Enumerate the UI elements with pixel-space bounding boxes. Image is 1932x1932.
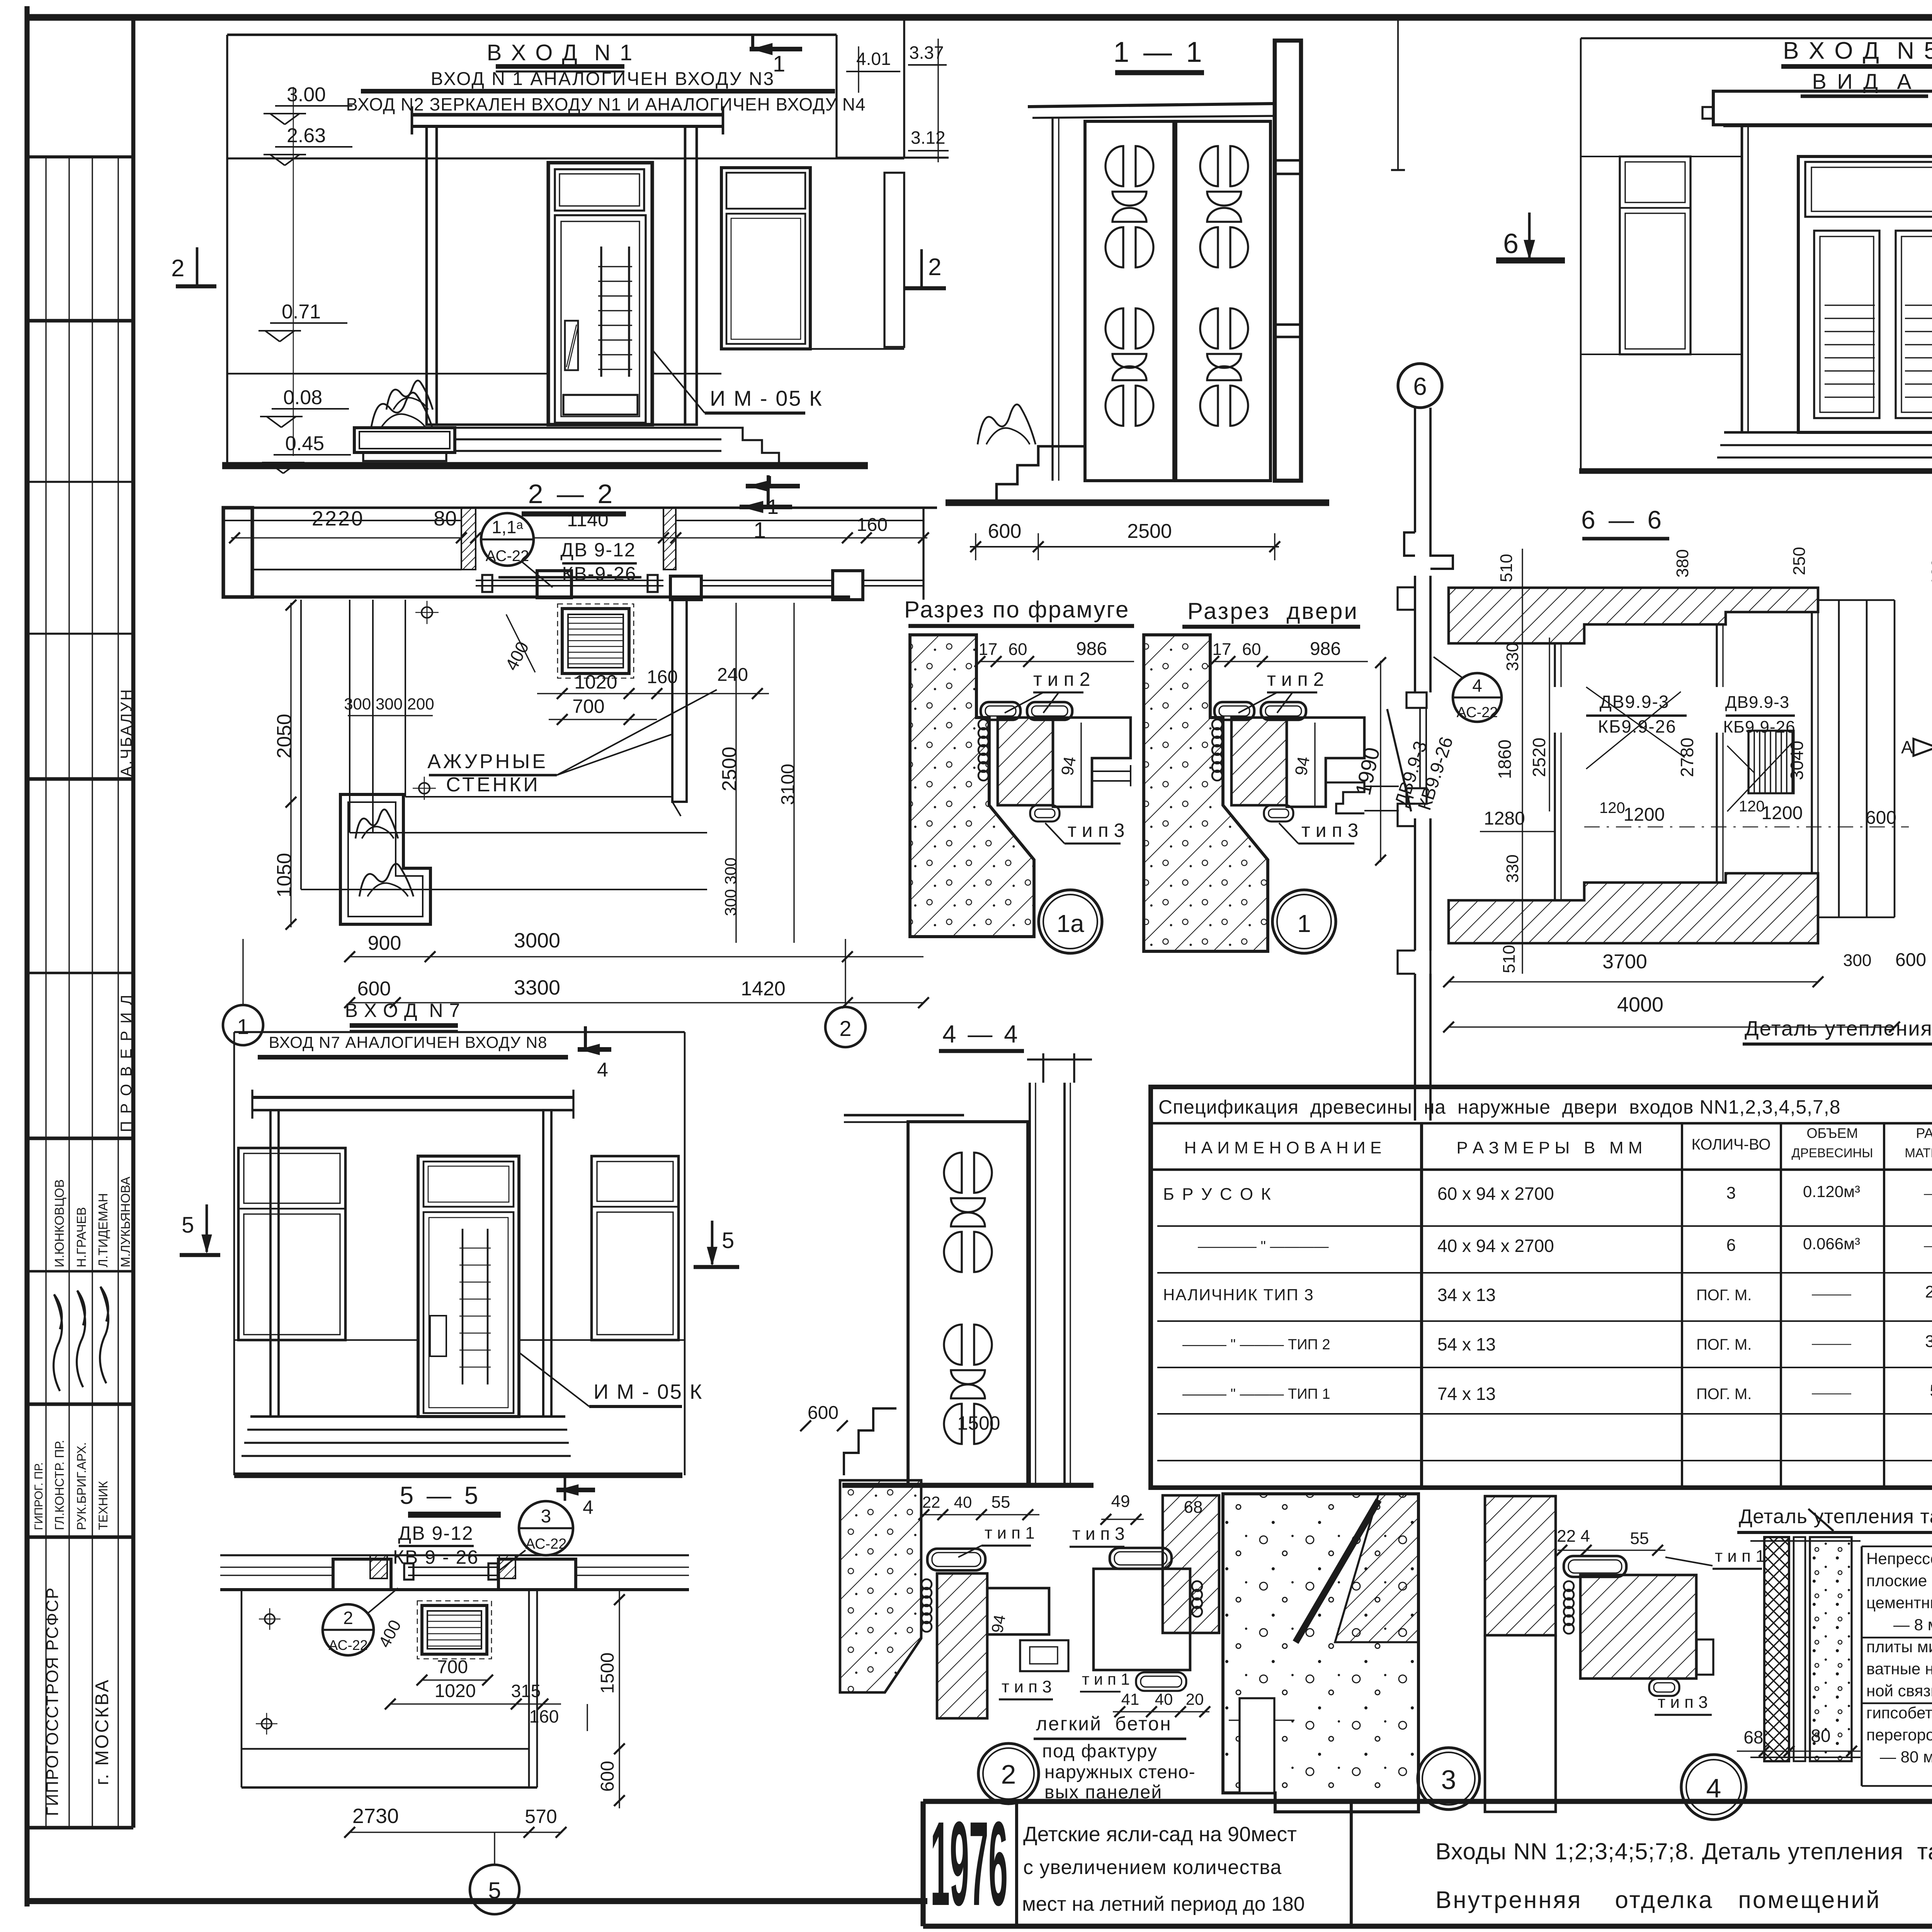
detail 3 hatched block (1485, 1496, 1556, 1635)
sheet border top (27, 14, 1932, 20)
ground line N5 (1579, 468, 1932, 474)
top wall hatched 6-6 (1449, 588, 1818, 643)
svg-text:60: 60 (1009, 640, 1027, 659)
grid bubble 5 (470, 1865, 519, 1914)
svg-text:41: 41 (1121, 1690, 1139, 1708)
svg-text:120: 120 (1739, 798, 1765, 815)
svg-text:гипсобетонная: гипсобетонная (1866, 1704, 1932, 1722)
svg-text:ВХОД N7 АНАЛОГИЧЕН ВХОДУ N8: ВХОД N7 АНАЛОГИЧЕН ВХОДУ N8 (269, 1033, 548, 1051)
room partition b (1716, 624, 1718, 687)
4-4 top tick (1027, 1058, 1092, 1060)
5-5 flank window lines (220, 1566, 333, 1568)
room partition c right (1811, 612, 1813, 873)
svg-text:330: 330 (1503, 643, 1522, 671)
wall joint lines (227, 373, 548, 375)
svg-text:ГИПРОГОССТРОЯ РСФСР: ГИПРОГОССТРОЯ РСФСР (43, 1587, 62, 1816)
far right window sliver (884, 173, 904, 347)
svg-text:2.63: 2.63 (287, 124, 326, 147)
ground line 1-1 (946, 499, 1329, 506)
window left N7 (238, 1148, 345, 1340)
svg-text:600: 600 (1895, 950, 1926, 970)
5-5 porch outline (241, 1590, 243, 1787)
detail 4 concrete strip (1810, 1537, 1852, 1761)
svg-text:20: 20 (1186, 1690, 1204, 1708)
svg-text:60 х 94 х 2700: 60 х 94 х 2700 (1437, 1184, 1554, 1204)
svg-text:АС-22: АС-22 (328, 1637, 367, 1653)
ventilation grille in plan (558, 604, 634, 678)
svg-text:40: 40 (1155, 1690, 1173, 1708)
svg-text:И М - 05 К: И М - 05 К (594, 1380, 703, 1403)
svg-text:3: 3 (1726, 1184, 1736, 1202)
svg-text:плоские асбесто—: плоские асбесто— (1866, 1571, 1932, 1590)
grid bubble 1 (223, 1005, 263, 1045)
detail bubble 4 AS-22 (1453, 673, 1502, 722)
svg-text:2780: 2780 (1677, 738, 1697, 777)
ajour wall horizontals (405, 796, 672, 798)
svg-text:т и п 3: т и п 3 (1068, 820, 1124, 841)
svg-text:34 х 13: 34 х 13 (1437, 1285, 1496, 1305)
left porch post (427, 126, 437, 425)
pier far right (833, 571, 863, 600)
svg-text:В Х О Д N 7: В Х О Д N 7 (345, 1000, 461, 1021)
svg-text:———: ——— (1924, 1238, 1932, 1253)
svg-text:1500: 1500 (597, 1653, 618, 1694)
detail 2 casing loop (927, 1549, 985, 1570)
detail 3 casing loop (1564, 1556, 1626, 1577)
svg-text:160: 160 (529, 1706, 559, 1726)
svg-text:Внутренняя отделка помеще: Внутренняя отделка помещений (1435, 1887, 1881, 1913)
casing loop top b (1261, 702, 1306, 720)
wall jog (1404, 532, 1453, 569)
svg-text:мест на летний период до 180: мест на летний период до 180 (1022, 1893, 1305, 1915)
detail bubble 1,1a AS-22 (481, 513, 534, 566)
detail 4 insulation strip (1794, 1537, 1805, 1761)
svg-text:60: 60 (1242, 640, 1261, 659)
wall band lower lines (252, 569, 461, 571)
svg-text:цементные листы—: цементные листы— (1866, 1594, 1932, 1612)
svg-text:80: 80 (1811, 1726, 1830, 1746)
svg-text:2220: 2220 (312, 507, 364, 530)
svg-text:986: 986 (1076, 639, 1107, 659)
svg-text:под фактуру: под фактуру (1042, 1741, 1158, 1762)
svg-text:4: 4 (1706, 1773, 1721, 1803)
casing loop bottom (1264, 805, 1293, 821)
svg-text:3: 3 (1441, 1765, 1456, 1795)
detail 3 tip3 casing (1649, 1679, 1679, 1696)
svg-text:4: 4 (1472, 675, 1482, 696)
svg-text:3300: 3300 (514, 976, 560, 999)
svg-text:Р А З М Е Р Ы В М М: Р А З М Е Р Ы В М М (1456, 1138, 1642, 1157)
svg-text:ВХОД N 1 АНАЛОГИЧЕН ВХОДУ N3: ВХОД N 1 АНАЛОГИЧЕН ВХОДУ N3 (431, 69, 775, 89)
detail bubble 2 bottom (978, 1743, 1039, 1804)
5-5 opening frame lines (408, 1566, 497, 1568)
stamp column right edge (131, 17, 136, 1828)
pier right (670, 576, 701, 600)
framuga pointer (1092, 770, 1131, 772)
svg-text:ДВ9.9-3: ДВ9.9-3 (1725, 693, 1789, 712)
svg-text:68: 68 (1743, 1727, 1763, 1747)
shaft with vertical hatch (1748, 731, 1794, 793)
svg-text:1420: 1420 (741, 978, 786, 1000)
door leaves N5 (1814, 231, 1879, 418)
svg-text:Спецификация древесины на н: Спецификация древесины на наружные двери… (1158, 1096, 1841, 1118)
svg-text:5: 5 (722, 1228, 734, 1253)
svg-text:5: 5 (488, 1878, 501, 1903)
5-5 pier right (498, 1559, 576, 1590)
svg-text:55: 55 (992, 1493, 1010, 1512)
svg-text:ВХОД N2 ЗЕРКАЛЕН ВХОДУ N1 И АН: ВХОД N2 ЗЕРКАЛЕН ВХОДУ N1 И АНАЛОГИЧЕН В… (346, 94, 866, 114)
svg-text:П Р О В Е Р И Л: П Р О В Е Р И Л (118, 993, 135, 1132)
detail bubble 2 AS-22 (323, 1604, 374, 1655)
stamp column top box (27, 155, 133, 158)
svg-text:32.0: 32.0 (1925, 1332, 1932, 1351)
survey circles 5-5 (265, 1614, 275, 1624)
ground line (222, 462, 868, 469)
room partition a (1554, 643, 1556, 687)
svg-text:Н А И М Е Н О В А Н И Е: Н А И М Е Н О В А Н И Е (1184, 1138, 1382, 1157)
detail 3 spring (1564, 1581, 1574, 1591)
section mark 4 top right 5-5 (564, 1475, 566, 1501)
svg-text:плиты минерало —: плиты минерало — (1866, 1638, 1932, 1656)
detail bubble 4 bottom (1681, 1755, 1746, 1820)
stamp column verticals (45, 157, 46, 1828)
svg-text:Деталь утепления тамбура: Деталь утепления тамбура (1745, 1017, 1932, 1040)
frame outer block (1053, 718, 1131, 807)
concrete wall hatch of framuga section (910, 635, 1034, 937)
casing loop top a (981, 702, 1020, 720)
svg-text:— 80 мм: — 80 мм (1866, 1748, 1932, 1766)
svg-text:94: 94 (1058, 755, 1080, 777)
detail 2 spring (922, 1579, 932, 1589)
svg-text:94: 94 (1291, 755, 1313, 777)
stair seen through door glazing (600, 247, 602, 377)
svg-text:600: 600 (808, 1403, 838, 1423)
svg-text:ной связке δ=150-60мм: ной связке δ=150-60мм (1866, 1682, 1932, 1700)
frame outer block (1287, 718, 1364, 807)
sheet border bottom left part (27, 1898, 927, 1904)
stairs in door N7 (462, 1229, 464, 1384)
svg-text:4: 4 (583, 1497, 594, 1518)
tambour left wall in plan (1414, 576, 1416, 692)
svg-text:1 — 1: 1 — 1 (1113, 36, 1205, 68)
section mark 4 (584, 1026, 587, 1052)
svg-text:4: 4 (597, 1059, 608, 1081)
svg-text:6: 6 (1726, 1236, 1736, 1255)
svg-text:Л.ТИДЕМАН: Л.ТИДЕМАН (96, 1193, 110, 1267)
svg-text:т и п 3: т и п 3 (1301, 820, 1358, 841)
svg-text:23.0: 23.0 (1925, 1282, 1932, 1301)
porch floor line (437, 423, 685, 426)
right porch post (685, 126, 697, 425)
4-4 ornamental door leaf (908, 1122, 1028, 1485)
svg-text:В Х О Д N 5: В Х О Д N 5 (1783, 37, 1932, 64)
marker A triangle (1913, 739, 1932, 756)
svg-text:1а: 1а (1056, 910, 1084, 937)
svg-text:МАТЕРИАЛА: МАТЕРИАЛА (1905, 1146, 1932, 1160)
entrance N5 area frame (1581, 37, 1932, 39)
svg-text:1280: 1280 (1484, 808, 1525, 829)
svg-text:с увеличением количества: с увеличением количества (1023, 1856, 1282, 1879)
svg-text:1020: 1020 (574, 671, 617, 693)
svg-text:т и п 1: т и п 1 (1082, 1670, 1130, 1688)
pier middle (537, 571, 571, 598)
section mark 1 right of title (769, 476, 771, 488)
svg-text:2: 2 (171, 255, 184, 282)
svg-text:94: 94 (988, 1613, 1009, 1634)
svg-text:570: 570 (525, 1806, 557, 1827)
svg-text:ГИПРОГ. ПР.: ГИПРОГ. ПР. (32, 1462, 45, 1530)
svg-text:ОБЪЕМ: ОБЪЕМ (1807, 1125, 1858, 1141)
svg-text:АЖУРНЫЕ: АЖУРНЫЕ (427, 750, 548, 773)
svg-text:А.ЧБАЛУН: А.ЧБАЛУН (118, 688, 135, 777)
svg-text:2: 2 (839, 1016, 851, 1041)
svg-text:5 — 5: 5 — 5 (400, 1481, 481, 1509)
section line stub above (1397, 19, 1399, 170)
svg-text:5.0: 5.0 (1930, 1381, 1932, 1400)
door leaf left with ornament (1085, 121, 1174, 481)
svg-text:3.00: 3.00 (287, 83, 326, 106)
svg-text:РУК.БРИГ.АРХ.: РУК.БРИГ.АРХ. (75, 1442, 88, 1530)
plant in planter (371, 393, 433, 429)
svg-text:0.08: 0.08 (283, 386, 322, 409)
posts N7 (270, 1110, 279, 1417)
grid bubble 2 (825, 1007, 866, 1047)
survey point circles (422, 607, 432, 618)
spec table row lines (1157, 1225, 1932, 1227)
ajour wall pier right (672, 600, 687, 802)
svg-text:4000: 4000 (1617, 993, 1663, 1016)
detail 2 concrete mass (1223, 1494, 1418, 1812)
detail 3 frame blocks (1580, 1575, 1696, 1679)
svg-text:2500: 2500 (718, 747, 741, 791)
svg-text:М.ЛУКЬЯНОВА: М.ЛУКЬЯНОВА (118, 1177, 133, 1267)
svg-text:510: 510 (1497, 554, 1516, 582)
detail 2 concrete block left (840, 1480, 921, 1692)
svg-text:160: 160 (647, 667, 678, 687)
stamp column dividers (27, 319, 133, 322)
detail bubble 6 (1398, 364, 1442, 408)
svg-text:3.12: 3.12 (911, 128, 946, 148)
svg-text:1,1ᵃ: 1,1ᵃ (492, 517, 523, 537)
svg-text:1: 1 (1297, 910, 1311, 937)
svg-text:80: 80 (434, 507, 457, 530)
svg-text:ПОГ. М.: ПОГ. М. (1696, 1336, 1752, 1353)
entrance steps left (976, 446, 1085, 503)
svg-text:Входы NN 1;2;3;4;5;7;8. Деталь: Входы NN 1;2;3;4;5;7;8. Деталь утепления… (1435, 1838, 1932, 1864)
entrance N7 area frame (234, 1031, 685, 1033)
wall lines N7 (234, 1339, 418, 1341)
svg-text:3: 3 (541, 1506, 551, 1527)
casing loop top b (1027, 702, 1072, 720)
frame wood block hatched (1231, 718, 1287, 805)
canopy N7 (252, 1096, 573, 1099)
casing loop bottom (1030, 805, 1060, 821)
svg-text:0.71: 0.71 (282, 301, 321, 323)
svg-text:17: 17 (1213, 640, 1231, 659)
svg-text:———: ——— (1812, 1336, 1851, 1351)
svg-text:ПОГ. М.: ПОГ. М. (1696, 1386, 1752, 1403)
svg-text:ТЕХНИК: ТЕХНИК (96, 1481, 110, 1530)
svg-text:НАЛИЧНИК ТИП 3: НАЛИЧНИК ТИП 3 (1163, 1286, 1314, 1304)
section mark 1 top (751, 34, 754, 51)
svg-text:1200: 1200 (1762, 803, 1803, 823)
entrance N1 drawing area frame (227, 34, 837, 36)
svg-text:54 х 13: 54 х 13 (1437, 1334, 1496, 1354)
svg-text:СТЕНКИ: СТЕНКИ (446, 774, 540, 796)
door bottom panel (563, 395, 638, 415)
frame foam spring (978, 719, 988, 730)
svg-text:1200: 1200 (1624, 804, 1665, 825)
svg-text:И.ЮНКОВЦОВ: И.ЮНКОВЦОВ (52, 1179, 66, 1267)
svg-text:Н.ГРАЧЕВ: Н.ГРАЧЕВ (74, 1207, 88, 1267)
door handle N7 (430, 1316, 446, 1356)
thin porch post (1051, 118, 1053, 481)
door leaf right with ornament (1176, 121, 1270, 481)
canopy of section 1-1 (1028, 104, 1275, 107)
svg-text:6: 6 (1413, 372, 1427, 400)
4-4 steps (844, 1408, 896, 1475)
window right N7 (592, 1156, 679, 1340)
spec table column lines (1420, 1123, 1423, 1488)
svg-text:наружных стено-: наружных стено- (1044, 1762, 1196, 1782)
wall stub below bubble 6 (1414, 408, 1416, 532)
svg-text:380: 380 (1673, 549, 1692, 577)
svg-text:———: ——— (1812, 1287, 1851, 1301)
svg-text:300 300 200: 300 300 200 (344, 695, 434, 713)
concrete wall hatch of door section (1144, 635, 1268, 951)
svg-text:ДВ 9-12: ДВ 9-12 (398, 1522, 473, 1544)
detail bubble 3 (1418, 1748, 1480, 1810)
svg-text:3040: 3040 (1787, 741, 1807, 780)
svg-text:4.01: 4.01 (856, 49, 891, 69)
svg-text:1860: 1860 (1495, 740, 1515, 779)
frame notch top right (835, 35, 837, 158)
section mark 1 bottom (767, 475, 770, 509)
svg-text:40: 40 (954, 1493, 972, 1511)
stairs behind glazing N5 (1825, 304, 1875, 306)
plan 2-2 wall band top line (223, 507, 937, 509)
door N7 (418, 1156, 519, 1417)
detail bubble 3 AS-22 (519, 1501, 573, 1555)
window in plan right (701, 580, 833, 581)
door frame blocks in tambour wall (1406, 692, 1427, 708)
svg-text:6: 6 (1503, 228, 1519, 259)
svg-text:т и п 2: т и п 2 (1033, 668, 1090, 690)
detail 3 lower outline (1485, 1635, 1556, 1812)
svg-text:Деталь утепления тамбура: Деталь утепления тамбура (1739, 1505, 1932, 1528)
svg-text:3000: 3000 (514, 929, 560, 952)
svg-text:600: 600 (597, 1761, 618, 1792)
svg-text:1: 1 (237, 1014, 249, 1039)
svg-text:160: 160 (857, 515, 888, 535)
svg-text:2050: 2050 (273, 714, 296, 759)
svg-text:315: 315 (511, 1681, 541, 1701)
detail 2 hatched sheet strip (1163, 1495, 1219, 1633)
detail bubble 1а (1039, 890, 1102, 953)
svg-text:Разрез двери: Разрез двери (1187, 598, 1359, 624)
svg-text:РАСХОД: РАСХОД (1916, 1125, 1932, 1141)
frame foam spring (1212, 719, 1222, 730)
svg-text:700: 700 (437, 1657, 468, 1677)
detail 2 right profile assembly (1094, 1569, 1190, 1670)
svg-text:перегородка —: перегородка — (1866, 1726, 1932, 1744)
door handle glazing hatch (565, 321, 578, 370)
svg-text:1140: 1140 (567, 509, 609, 531)
svg-text:5: 5 (182, 1213, 194, 1238)
svg-text:330: 330 (1503, 854, 1522, 883)
svg-text:т и п 3: т и п 3 (1072, 1524, 1125, 1544)
svg-text:49: 49 (1111, 1492, 1130, 1511)
svg-text:74 х 13: 74 х 13 (1437, 1384, 1496, 1404)
svg-text:0.45: 0.45 (285, 432, 324, 455)
stamp signatures (54, 1294, 62, 1391)
tambour side walls (1741, 125, 1743, 432)
svg-text:т и п 1: т и п 1 (985, 1524, 1035, 1543)
ground N7 (234, 1473, 682, 1478)
svg-text:ГЛ.КОНСТР. ПР.: ГЛ.КОНСТР. ПР. (53, 1440, 66, 1530)
svg-text:———— " ————: ———— " ———— (1198, 1238, 1329, 1255)
axis dash line through plan (1584, 827, 1909, 828)
svg-text:17: 17 (979, 640, 998, 659)
svg-text:0.066м³: 0.066м³ (1803, 1235, 1860, 1253)
svg-text:2520: 2520 (1529, 738, 1549, 777)
svg-text:т и п 3: т и п 3 (1002, 1677, 1052, 1696)
svg-text:ватные на битум—: ватные на битум— (1866, 1660, 1932, 1678)
svg-text:———: ——— (1812, 1386, 1851, 1400)
svg-text:легкий бетон: легкий бетон (1036, 1713, 1172, 1735)
flank wall lines N5 (1581, 156, 1620, 157)
svg-text:900: 900 (368, 932, 401, 954)
svg-text:г. МОСКВА: г. МОСКВА (92, 1678, 112, 1785)
svg-text:КВ-9-26: КВ-9-26 (562, 563, 636, 585)
door unit N5 (1798, 156, 1932, 432)
title block frame (923, 1799, 1932, 1804)
door unit (548, 163, 652, 425)
svg-text:600: 600 (1866, 808, 1896, 828)
svg-text:АС-22: АС-22 (1457, 704, 1498, 721)
bottom wall hatched 6-6 (1449, 873, 1818, 943)
svg-text:А: А (1901, 737, 1913, 757)
svg-text:240: 240 (717, 665, 748, 685)
svg-text:600: 600 (357, 978, 391, 1000)
svg-text:700: 700 (572, 696, 604, 717)
porch slab N7 (250, 1415, 565, 1418)
svg-text:40 х 94 х 2700: 40 х 94 х 2700 (1437, 1236, 1554, 1256)
svg-text:т и п 3: т и п 3 (1658, 1693, 1708, 1712)
svg-text:55: 55 (1630, 1529, 1649, 1548)
svg-text:И М - 05 К: И М - 05 К (710, 386, 823, 410)
svg-text:3700: 3700 (1602, 951, 1647, 973)
door frame in plan (476, 580, 663, 581)
svg-text:1500: 1500 (957, 1412, 1000, 1434)
svg-text:т и п 2: т и п 2 (1267, 668, 1324, 690)
svg-text:68: 68 (1184, 1498, 1203, 1517)
canopy slab (412, 113, 723, 116)
5-5 wall band (220, 1554, 689, 1556)
left pier (223, 508, 252, 597)
svg-text:300: 300 (1843, 951, 1871, 970)
svg-text:ДВ9.9-3: ДВ9.9-3 (1600, 692, 1670, 712)
svg-text:986: 986 (1310, 639, 1341, 659)
svg-text:АС-22: АС-22 (526, 1536, 567, 1552)
left window N5 (1620, 156, 1690, 354)
svg-text:———: ——— (1924, 1186, 1932, 1201)
svg-text:3100: 3100 (778, 764, 798, 805)
svg-text:В Х О Д N 1: В Х О Д N 1 (487, 40, 634, 65)
svg-text:600: 600 (988, 520, 1022, 543)
svg-text:4 — 4: 4 — 4 (942, 1020, 1020, 1048)
svg-text:2730: 2730 (352, 1804, 399, 1828)
